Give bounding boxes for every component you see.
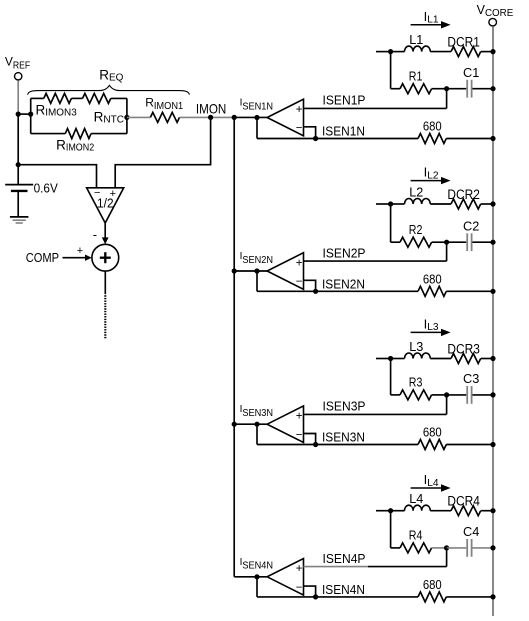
op-amp 1/2 divider: [87, 188, 124, 223]
wire: [234, 423, 267, 425]
svg-text:680: 680: [423, 577, 442, 592]
wire: [391, 547, 400, 549]
inductor L1: [405, 46, 431, 52]
op-amp ISEN3: [267, 406, 303, 443]
wire: [473, 88, 494, 90]
wire: [446, 138, 493, 140]
resistor 680 phase4: [418, 592, 446, 602]
wire: [481, 51, 493, 53]
node: [490, 594, 495, 599]
svg-text:+: +: [296, 257, 303, 269]
resistor RNTC: [83, 93, 111, 103]
power rail VCORE: [492, 26, 494, 616]
node: [490, 201, 495, 206]
node: [232, 268, 237, 273]
svg-text:IL3: IL3: [424, 317, 439, 334]
svg-text:−: −: [296, 123, 303, 135]
svg-text:DCR2: DCR2: [447, 187, 480, 202]
resistor 680 phase2: [418, 286, 446, 296]
wire: [257, 596, 418, 598]
node: [490, 545, 495, 550]
node: [16, 162, 21, 167]
node: [388, 356, 393, 361]
wire: [17, 113, 30, 115]
wire: [91, 133, 127, 135]
wire: [432, 394, 447, 396]
wire: [432, 241, 447, 243]
wire: [17, 80, 19, 114]
svg-text:−: −: [296, 429, 303, 441]
wire: [304, 586, 316, 597]
resistor RIMON2: [65, 129, 91, 139]
node: [490, 86, 495, 91]
svg-text:IL1: IL1: [424, 9, 439, 26]
svg-text:R2: R2: [409, 223, 423, 237]
wire: [481, 203, 493, 205]
svg-text:L1: L1: [409, 33, 423, 47]
wire: [391, 88, 400, 90]
wire: [481, 510, 493, 512]
wire dashed: [104, 295, 106, 338]
wire: [104, 223, 106, 238]
wire: [304, 434, 316, 445]
svg-text:-: -: [93, 227, 97, 242]
svg-text:−: −: [296, 582, 303, 594]
svg-text:ISEN1P: ISEN1P: [323, 93, 366, 108]
svg-text:ISEN1N: ISEN1N: [322, 124, 365, 139]
node: [254, 268, 259, 273]
svg-text:C3: C3: [463, 371, 479, 386]
wire: [432, 547, 447, 549]
wire: [104, 271, 106, 294]
wire: [17, 114, 19, 165]
wire: [115, 117, 210, 187]
wire ISEN4P: [304, 566, 369, 568]
svg-text:VCORE: VCORE: [477, 3, 514, 19]
node: [388, 49, 393, 54]
svg-text:ISEN4P: ISEN4P: [323, 551, 366, 566]
svg-text:RIMON1: RIMON1: [145, 96, 183, 112]
arrow IL1: [411, 24, 441, 26]
wire: [390, 52, 392, 89]
resistor DCR4: [451, 506, 481, 516]
capacitor C1: [466, 80, 468, 98]
capacitor C4: [466, 539, 468, 557]
resistor DCR1: [451, 47, 481, 57]
ground: [10, 216, 29, 218]
node: [313, 442, 318, 447]
node: [232, 115, 237, 120]
wire: [376, 358, 391, 360]
node: [444, 545, 449, 550]
svg-text:RNTC: RNTC: [94, 109, 124, 125]
wire: [391, 394, 400, 396]
svg-text:680: 680: [423, 425, 442, 440]
svg-text:R4: R4: [409, 529, 423, 543]
svg-text:DCR1: DCR1: [447, 35, 480, 50]
node: [254, 422, 259, 427]
node: [313, 136, 318, 141]
node: [388, 201, 393, 206]
svg-text:ISEN2N: ISEN2N: [240, 251, 273, 266]
wire: [473, 241, 494, 243]
node: [490, 289, 495, 294]
wire: [256, 118, 258, 139]
svg-text:L4: L4: [409, 492, 423, 506]
wire: [257, 444, 418, 446]
svg-text:DCR4: DCR4: [447, 494, 480, 509]
wire: [234, 576, 267, 578]
resistor RIMON3: [44, 93, 72, 103]
battery 0.6V: [17, 165, 19, 185]
capacitor C2: [466, 233, 468, 251]
svg-text:ISEN3N: ISEN3N: [240, 404, 273, 419]
node: [124, 115, 129, 120]
resistor DCR2: [451, 199, 481, 209]
arrow IL3: [411, 331, 441, 333]
arrow IL4: [411, 487, 441, 489]
svg-text:0.6V: 0.6V: [34, 180, 58, 195]
wire: [430, 358, 451, 360]
svg-text:L3: L3: [409, 340, 423, 354]
wire: [430, 51, 451, 53]
wire: [390, 359, 392, 395]
wire: [18, 165, 96, 188]
op-amp ISEN1: [267, 99, 303, 136]
svg-text:IL4: IL4: [424, 472, 439, 489]
wire: [30, 98, 32, 133]
svg-text:1/2: 1/2: [97, 196, 114, 210]
svg-text:ISEN3P: ISEN3P: [323, 399, 366, 414]
wire: [257, 138, 418, 140]
svg-text:ISEN3N: ISEN3N: [322, 430, 365, 445]
wire: [473, 547, 494, 549]
wire: [31, 133, 66, 135]
wire: [376, 203, 391, 205]
node: [490, 508, 495, 513]
resistor DCR3: [451, 354, 481, 364]
wire IMON bus: [233, 117, 235, 576]
op-amp ISEN4: [267, 559, 303, 596]
resistor 680 phase1: [418, 134, 446, 144]
node: [490, 442, 495, 447]
node IMON: [208, 115, 213, 120]
wire: [473, 394, 494, 396]
arrow: [85, 255, 92, 261]
svg-text:−: −: [296, 276, 303, 288]
svg-text:680: 680: [423, 119, 442, 134]
node: [490, 356, 495, 361]
wire: [234, 270, 267, 272]
svg-text:ISEN1N: ISEN1N: [240, 98, 273, 113]
wire IMON: [127, 116, 150, 118]
terminal VCORE: [489, 18, 497, 26]
svg-text:RIMON3: RIMON3: [36, 102, 78, 118]
wire: [391, 51, 405, 53]
wire ISEN3P: [304, 413, 447, 415]
svg-text:C2: C2: [463, 219, 479, 234]
node: [232, 422, 237, 427]
svg-text:IMON: IMON: [196, 100, 226, 116]
wire: [304, 127, 316, 139]
svg-text:+: +: [77, 245, 83, 257]
wire: [481, 358, 493, 360]
svg-text:L2: L2: [409, 185, 423, 199]
wire: [447, 241, 467, 243]
node: [490, 392, 495, 397]
inductor L4: [405, 505, 431, 511]
svg-text:+: +: [296, 563, 303, 575]
capacitor C3: [466, 386, 468, 404]
arrow IL2: [411, 180, 441, 182]
node: [490, 240, 495, 245]
svg-text:COMP: COMP: [26, 250, 59, 265]
wire: [390, 511, 392, 548]
wire: [391, 510, 405, 512]
wire: [446, 290, 493, 292]
node: [16, 112, 21, 117]
svg-text:R1: R1: [409, 69, 423, 83]
wire: [447, 88, 467, 90]
node: [313, 594, 318, 599]
wire: [432, 88, 447, 90]
wire: [446, 596, 493, 598]
node: [254, 574, 259, 579]
svg-text:+: +: [296, 104, 303, 116]
wire: [31, 97, 44, 99]
node: [313, 289, 318, 294]
node: [444, 240, 449, 245]
svg-text:DCR3: DCR3: [447, 342, 480, 357]
brace REQ: [28, 85, 190, 94]
wire: [71, 97, 82, 99]
resistor 680 phase3: [418, 440, 446, 450]
arrow: [102, 237, 109, 244]
svg-text:ISEN4N: ISEN4N: [240, 557, 273, 572]
svg-text:ISEN2N: ISEN2N: [322, 277, 365, 292]
wire: [256, 424, 258, 444]
resistor R1: [400, 84, 432, 94]
op-amp ISEN2: [267, 253, 303, 290]
inductor L2: [405, 198, 431, 204]
node: [28, 112, 33, 117]
svg-text:IL2: IL2: [424, 165, 439, 182]
wire: [256, 577, 258, 597]
svg-text:C1: C1: [463, 65, 479, 80]
inductor L3: [405, 353, 431, 359]
wire: [391, 203, 405, 205]
wire: [376, 510, 391, 512]
resistor RIMON1: [150, 112, 179, 122]
svg-text:R3: R3: [409, 376, 423, 390]
wire: [430, 203, 451, 205]
wire: [447, 394, 467, 396]
wire: [256, 271, 258, 291]
node: [254, 115, 259, 120]
resistor R4: [400, 543, 432, 553]
wire ISEN1P: [304, 107, 447, 109]
wire ISEN2P: [304, 260, 447, 262]
wire: [390, 204, 392, 242]
wire: [430, 510, 451, 512]
svg-text:REQ: REQ: [99, 67, 123, 83]
wire: [391, 241, 400, 243]
wire: [391, 358, 405, 360]
svg-text:ISEN4N: ISEN4N: [322, 582, 365, 597]
wire: [126, 98, 128, 133]
terminal VREF: [15, 73, 22, 80]
wire: [447, 547, 467, 549]
wire: [376, 51, 391, 53]
node: [444, 86, 449, 91]
resistor R2: [400, 237, 432, 247]
wire: [257, 290, 418, 292]
svg-text:680: 680: [423, 271, 442, 286]
wire: [446, 444, 493, 446]
node: [388, 508, 393, 513]
svg-text:C4: C4: [463, 524, 479, 539]
node: [490, 49, 495, 54]
resistor R3: [400, 390, 432, 400]
wire: [304, 280, 316, 291]
svg-text:ISEN2P: ISEN2P: [323, 245, 366, 260]
wire: [63, 257, 86, 259]
summing junction: [92, 244, 119, 271]
wire: [111, 97, 127, 99]
node: [444, 392, 449, 397]
svg-text:VREF: VREF: [5, 55, 30, 72]
node: [490, 136, 495, 141]
svg-text:+: +: [296, 411, 303, 423]
wire: [234, 116, 267, 118]
wire IMON: [180, 116, 235, 118]
